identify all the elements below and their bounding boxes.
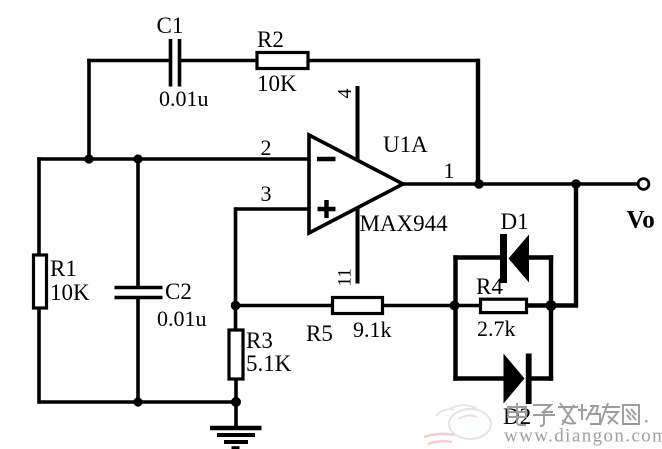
op-amp U1A supply pin 11 line (356, 207, 360, 284)
svg-text:2: 2 (261, 135, 272, 160)
svg-text:10K: 10K (50, 280, 90, 305)
svg-text:D1: D1 (501, 209, 529, 234)
resistor R2 (257, 53, 308, 69)
wire top feedback left segment (87, 59, 171, 63)
capacitor C2 (115, 288, 163, 298)
svg-text:5.1K: 5.1K (246, 351, 292, 376)
wire C2 branch vertical (136, 159, 140, 286)
wire diode loop left vertical (453, 255, 457, 380)
node junction ground/bottom rail (231, 397, 241, 407)
wire D1 branch right (528, 255, 553, 259)
wire R5 to R4 segment (382, 304, 481, 308)
svg-text:MAX944: MAX944 (360, 211, 449, 236)
char you (600, 403, 620, 425)
wire inverting input (pin 2 net) (37, 157, 309, 161)
node junction pin2/C2 (133, 154, 142, 163)
svg-text:R2: R2 (257, 27, 284, 52)
wire R5 left segment (236, 304, 334, 308)
char wang (623, 405, 639, 424)
svg-text:Vo: Vo (627, 207, 655, 234)
wire D2 branch right (530, 376, 553, 380)
node junction output/feedback (474, 179, 484, 189)
svg-text:9.1k: 9.1k (353, 317, 392, 342)
node junction pin2/top-feedback (84, 154, 93, 163)
svg-text:1: 1 (444, 158, 455, 183)
wire right feedback vertical (476, 59, 480, 184)
watermark logo smudge (424, 405, 491, 444)
wire left feedback vertical (87, 59, 91, 159)
svg-text:4: 4 (334, 89, 356, 99)
svg-text:3: 3 (261, 181, 272, 206)
watermark text dianzifashaoyouwang (508, 403, 648, 426)
svg-text:U1A: U1A (383, 132, 428, 157)
svg-text:R4: R4 (476, 274, 503, 299)
wire pin3 vertical to R3 (234, 207, 238, 330)
svg-text:C1: C1 (157, 13, 184, 38)
op-amp U1A supply pin 4 line (356, 86, 360, 161)
wire op-amp output (pin 1 net) (403, 182, 639, 186)
char shao (578, 404, 600, 424)
node junction loop right (546, 300, 557, 311)
svg-text:10K: 10K (257, 71, 297, 96)
char fa (558, 403, 578, 425)
svg-text:www.diangon.com: www.diangon.com (504, 426, 662, 447)
diode D2 (504, 354, 532, 405)
svg-text:0.01u: 0.01u (157, 306, 207, 331)
svg-text:R3: R3 (246, 328, 273, 353)
wire D1 branch left (453, 255, 501, 259)
resistor R3 (229, 330, 243, 379)
wire output branch vertical (574, 184, 578, 308)
node junction output/diode branch (571, 179, 581, 189)
wire diode loop right vertical (549, 255, 553, 380)
wire bottom rail (39, 400, 236, 404)
char zi (533, 405, 555, 426)
svg-text:2.7k: 2.7k (477, 316, 516, 341)
svg-text:C2: C2 (165, 279, 192, 304)
wire R4 right to output stub (526, 303, 578, 307)
wire R3 to ground node (234, 379, 238, 402)
char dian (508, 403, 526, 425)
svg-text:R5: R5 (306, 321, 333, 346)
svg-text:R1: R1 (50, 256, 77, 281)
node junction loop left (450, 301, 460, 311)
diode D1 (500, 234, 529, 283)
node junction C2/bottom rail (133, 397, 142, 406)
wire non-inverting input (pin 3 net) (236, 207, 310, 211)
resistor R4 (481, 299, 527, 312)
svg-text:0.01u: 0.01u (159, 86, 209, 111)
wire D2 branch left (453, 376, 505, 380)
wire top feedback C1 to R2 (179, 59, 258, 63)
wire top feedback R2 to corner (307, 59, 480, 63)
capacitor C1 (171, 39, 180, 87)
watermark period (645, 420, 648, 423)
ground (210, 402, 262, 448)
resistor R1 (34, 255, 47, 308)
resistor R5 (333, 298, 383, 314)
node junction pin3/R5/R3 (231, 301, 241, 311)
output terminal Vo (638, 179, 649, 190)
op-amp U1A (309, 135, 403, 233)
wire left column vertical (37, 157, 41, 404)
svg-text:11: 11 (335, 268, 356, 286)
wire C2 lower vertical (136, 299, 140, 402)
